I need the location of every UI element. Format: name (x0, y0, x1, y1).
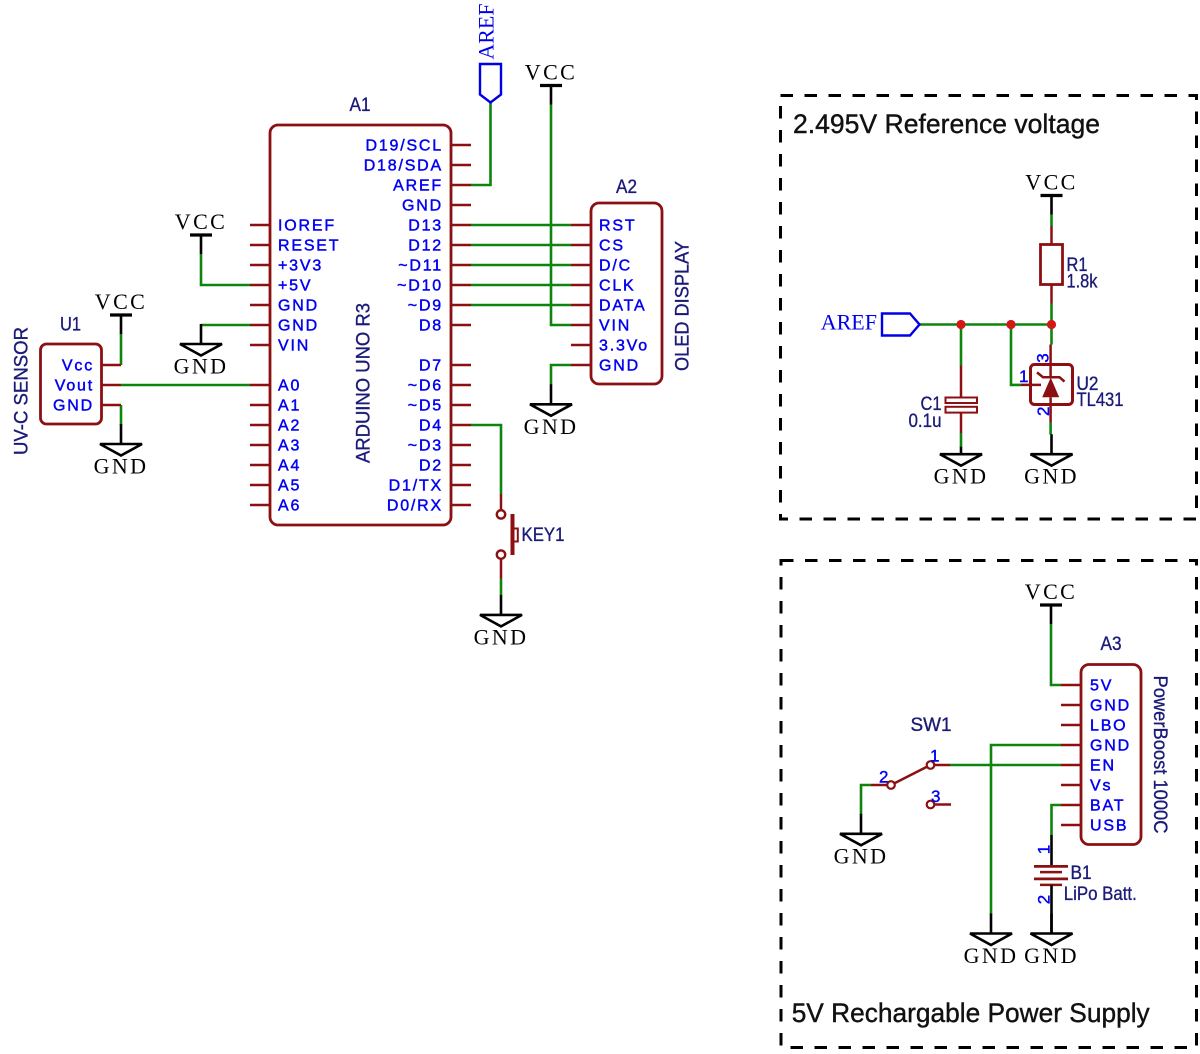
svg-text:VCC: VCC (95, 289, 147, 314)
svg-text:LiPo Batt.: LiPo Batt. (1064, 883, 1137, 905)
svg-text:D4: D4 (419, 418, 443, 435)
svg-text:GND: GND (599, 358, 640, 375)
svg-text:D13: D13 (408, 218, 443, 235)
svg-text:3: 3 (1033, 353, 1052, 362)
svg-text:3: 3 (931, 787, 940, 806)
svg-text:KEY1: KEY1 (522, 524, 565, 546)
svg-text:~D10: ~D10 (397, 278, 443, 295)
svg-text:GND: GND (524, 414, 579, 439)
svg-text:LBO: LBO (1090, 718, 1127, 735)
svg-text:CS: CS (599, 238, 625, 255)
svg-text:A0: A0 (278, 378, 301, 395)
svg-text:VCC: VCC (1025, 170, 1077, 195)
svg-text:A4: A4 (278, 458, 301, 475)
svg-text:2: 2 (1034, 895, 1053, 904)
svg-text:VCC: VCC (1025, 579, 1077, 604)
svg-text:GND: GND (94, 454, 149, 479)
svg-text:AREF: AREF (473, 3, 498, 59)
svg-text:U1: U1 (60, 314, 81, 336)
svg-text:GND: GND (1090, 698, 1131, 715)
svg-text:BAT: BAT (1090, 798, 1125, 815)
svg-text:1: 1 (1019, 367, 1028, 386)
svg-text:GND: GND (174, 354, 229, 379)
svg-text:GND: GND (1090, 738, 1131, 755)
svg-text:~D11: ~D11 (398, 258, 443, 275)
svg-text:1.8k: 1.8k (1067, 271, 1098, 293)
svg-text:VCC: VCC (525, 60, 577, 85)
svg-text:2.495V Reference voltage: 2.495V Reference voltage (793, 109, 1100, 139)
svg-text:D0/RX: D0/RX (387, 498, 443, 515)
svg-text:2: 2 (1034, 407, 1053, 416)
svg-text:AREF: AREF (393, 178, 443, 195)
svg-text:PowerBoost 1000C: PowerBoost 1000C (1149, 676, 1171, 834)
svg-text:GND: GND (834, 843, 889, 868)
svg-text:DATA: DATA (599, 298, 647, 315)
svg-text:USB: USB (1090, 818, 1128, 835)
svg-text:5V: 5V (1090, 678, 1113, 695)
svg-text:GND: GND (934, 464, 989, 489)
svg-text:RST: RST (599, 218, 636, 235)
svg-text:A1: A1 (278, 398, 301, 415)
svg-text:Vout: Vout (55, 378, 94, 395)
svg-text:A2: A2 (616, 176, 637, 198)
svg-text:GND: GND (964, 943, 1019, 968)
svg-text:5V Rechargable Power Supply: 5V Rechargable Power Supply (792, 998, 1150, 1028)
svg-text:VIN: VIN (599, 318, 631, 335)
svg-text:D19/SCL: D19/SCL (365, 138, 443, 155)
svg-text:D7: D7 (419, 358, 443, 375)
svg-text:A3: A3 (1101, 633, 1122, 655)
svg-text:ARDUINO UNO R3: ARDUINO UNO R3 (353, 303, 375, 463)
svg-text:TL431: TL431 (1077, 389, 1124, 411)
svg-text:+5V: +5V (278, 278, 312, 295)
svg-text:A1: A1 (350, 94, 371, 116)
svg-text:A5: A5 (278, 478, 301, 495)
svg-text:D8: D8 (419, 318, 443, 335)
svg-text:GND: GND (53, 398, 94, 415)
svg-text:A2: A2 (278, 418, 301, 435)
svg-text:2: 2 (879, 768, 888, 787)
svg-text:~D9: ~D9 (408, 298, 443, 315)
svg-text:GND: GND (278, 298, 319, 315)
svg-text:VCC: VCC (175, 209, 227, 234)
svg-text:AREF: AREF (821, 310, 877, 335)
svg-text:A6: A6 (278, 498, 301, 515)
svg-text:GND: GND (278, 318, 319, 335)
svg-text:0.1u: 0.1u (909, 410, 942, 432)
svg-text:VIN: VIN (278, 338, 310, 355)
svg-text:D1/TX: D1/TX (389, 478, 443, 495)
svg-text:GND: GND (402, 198, 443, 215)
svg-text:D18/SDA: D18/SDA (364, 158, 443, 175)
svg-text:GND: GND (1024, 464, 1079, 489)
svg-text:+3V3: +3V3 (278, 258, 323, 275)
svg-text:GND: GND (1024, 943, 1079, 968)
svg-text:1: 1 (930, 747, 939, 766)
svg-text:D/C: D/C (599, 258, 632, 275)
svg-text:UV-C SENSOR: UV-C SENSOR (11, 327, 33, 455)
svg-text:~D6: ~D6 (408, 378, 443, 395)
svg-text:~D5: ~D5 (408, 398, 443, 415)
svg-text:RESET: RESET (278, 238, 340, 255)
svg-text:B1: B1 (1071, 862, 1092, 884)
svg-text:Vs: Vs (1090, 778, 1112, 795)
svg-text:GND: GND (474, 624, 529, 649)
svg-text:~D3: ~D3 (408, 438, 443, 455)
svg-text:3.3Vo: 3.3Vo (599, 338, 649, 355)
svg-text:SW1: SW1 (911, 714, 952, 736)
svg-text:A3: A3 (278, 438, 301, 455)
svg-text:EN: EN (1090, 758, 1116, 775)
svg-text:1: 1 (1034, 845, 1053, 854)
svg-text:OLED DISPLAY: OLED DISPLAY (672, 241, 694, 371)
svg-text:Vcc: Vcc (62, 358, 94, 375)
svg-text:D12: D12 (408, 238, 443, 255)
svg-text:CLK: CLK (599, 278, 636, 295)
svg-text:IOREF: IOREF (278, 218, 336, 235)
svg-text:D2: D2 (419, 458, 443, 475)
